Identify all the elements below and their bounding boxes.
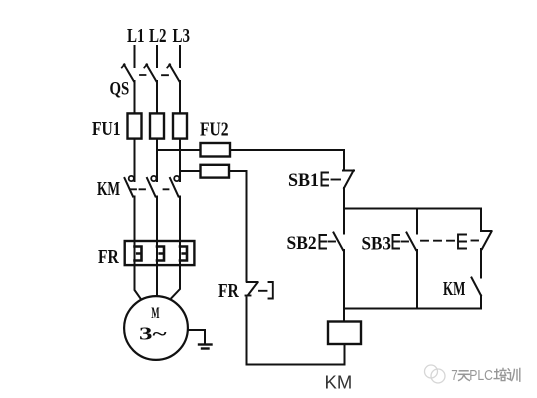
button SB2 actuator E bbox=[320, 235, 327, 249]
wire pole2 KM to FR bbox=[156, 197, 158, 242]
label L1 bbox=[127, 24, 144, 47]
wire SB1 to junction bbox=[343, 188, 345, 209]
svg-text:FU2: FU2 bbox=[200, 118, 229, 140]
wire SB3 NC to KM aux bbox=[480, 249, 482, 278]
contactor KM pole 3 circle bbox=[174, 176, 179, 181]
label SB3 bbox=[362, 233, 391, 254]
svg-text:KM: KM bbox=[325, 372, 353, 393]
FR phase 2 line through box bbox=[156, 241, 158, 265]
contact FR NC foot bbox=[246, 295, 251, 297]
wire KM aux to bottom rail bbox=[480, 296, 482, 309]
svg-text:PLC: PLC bbox=[469, 367, 493, 383]
watermark logo circle 2 bbox=[431, 369, 445, 383]
svg-text:FR: FR bbox=[98, 245, 120, 267]
label QS bbox=[110, 78, 130, 99]
FR phase 1 line through box bbox=[134, 241, 136, 265]
button SB3 NC bar bbox=[481, 230, 492, 232]
wire FR to motor phase 3 bbox=[172, 265, 181, 298]
wire FR to motor phase 2 bbox=[156, 265, 158, 296]
contactor KM pole 1 blade bbox=[125, 178, 134, 197]
ground bar 1 bbox=[199, 343, 212, 345]
coil KM rectangle bbox=[328, 322, 361, 345]
contact FR NC bar bbox=[247, 281, 258, 283]
wire FR to motor phase 1 bbox=[135, 265, 141, 299]
contact FR trip hook dash bbox=[259, 290, 267, 292]
wire junction to SB3 bbox=[416, 209, 418, 234]
watermark glyph tian bbox=[458, 371, 469, 381]
contactor KM linkage dashed bbox=[131, 188, 169, 190]
wire L1 drop bbox=[134, 46, 136, 67]
label KM main contacts bbox=[97, 177, 120, 199]
svg-text:FU1: FU1 bbox=[92, 117, 121, 139]
wire pole2 to FU1 bbox=[156, 81, 158, 113]
contactor KM pole 1 circle bbox=[129, 176, 134, 181]
contact FR NC blade bbox=[248, 283, 258, 296]
wire fuse2 to KM contact bbox=[156, 139, 158, 181]
svg-text:M: M bbox=[151, 303, 159, 322]
ground bar 2 bbox=[202, 347, 209, 349]
wire junction to SB3 NC bbox=[480, 209, 482, 232]
label L3 bbox=[173, 24, 191, 47]
contact FR trip hook bracket bbox=[269, 282, 273, 299]
label SB1 bbox=[288, 170, 319, 192]
wire SB3 down to bottom rail bbox=[416, 250, 418, 309]
SB3 second actuator dash bbox=[472, 240, 479, 242]
wire coil bottom bbox=[344, 344, 346, 365]
switch QS pole 3 blade bbox=[170, 65, 180, 82]
svg-text:QS: QS bbox=[110, 78, 130, 99]
wire pole3 KM to FR bbox=[179, 197, 181, 242]
wire bottom rail of branches bbox=[344, 308, 481, 310]
watermark text PLC bbox=[469, 367, 493, 383]
button SB1 actuator E bbox=[322, 173, 329, 186]
svg-text:SB2: SB2 bbox=[287, 232, 317, 253]
wire pole1 KM to FR bbox=[134, 197, 136, 242]
switch QS pole 2 blade bbox=[147, 65, 157, 82]
wire pole1 to FU1 bbox=[134, 81, 136, 113]
button SB1 NC bar bbox=[343, 170, 354, 172]
wire fuse3 to KM contact bbox=[179, 139, 181, 181]
label FU1 bbox=[92, 117, 121, 139]
switch QS linkage dashed bbox=[140, 74, 168, 76]
svg-text:KM: KM bbox=[97, 177, 120, 199]
FR phase 3 line through box bbox=[179, 241, 181, 265]
wire motor to ground bbox=[188, 330, 205, 344]
label FU2 bbox=[200, 118, 229, 140]
fuse FU2 lower bbox=[201, 165, 230, 178]
FR heater element 1 bbox=[135, 247, 142, 261]
FR heater element 2 bbox=[157, 247, 164, 261]
wire FU2 lower to control left bbox=[229, 170, 247, 172]
FR heater element 3 bbox=[180, 247, 187, 261]
wire L2 branch to FU2 upper bbox=[157, 149, 201, 151]
fuse FU1 element 1 bbox=[128, 113, 142, 138]
motor label M bbox=[151, 303, 159, 322]
wire junction horizontal top bbox=[344, 208, 481, 210]
button SB2 NO blade bbox=[334, 233, 344, 251]
watermark logo circle 1 bbox=[425, 365, 438, 378]
contact KM aux NO blade bbox=[472, 278, 482, 296]
wire control right branch down to SB1 bbox=[343, 150, 345, 170]
svg-text:3~: 3~ bbox=[139, 324, 167, 344]
button SB3 NO blade bbox=[407, 233, 417, 251]
wire fuse1 to KM contact bbox=[134, 139, 136, 181]
wire L3 branch to FU2 lower bbox=[180, 170, 201, 172]
wire L2 drop bbox=[156, 46, 158, 67]
svg-text:L2: L2 bbox=[149, 24, 167, 47]
switch QS pole 1 blade bbox=[124, 65, 134, 82]
label KM aux contact bbox=[443, 277, 465, 300]
contactor KM pole 2 blade bbox=[147, 178, 156, 197]
fuse FU1 element 2 bbox=[150, 113, 164, 138]
fuse FU2 upper bbox=[201, 143, 231, 157]
wire FU2 upper to control right bbox=[230, 149, 344, 151]
wire left control column up bbox=[246, 298, 248, 365]
contactor KM pole 2 circle bbox=[151, 176, 156, 181]
svg-text:7: 7 bbox=[451, 367, 457, 384]
svg-text:FR: FR bbox=[218, 279, 240, 301]
button SB1 actuator dash bbox=[332, 179, 341, 181]
watermark text 7 bbox=[451, 367, 457, 384]
switch QS pole 1 blade tick bbox=[122, 64, 125, 67]
wire L3 drop bbox=[179, 46, 181, 67]
watermark glyph pei bbox=[494, 368, 506, 380]
label FR control contact bbox=[218, 279, 240, 301]
button SB3 NC blade bbox=[482, 232, 492, 250]
switch QS pole 2 blade tick bbox=[144, 64, 147, 67]
label FR overload relay bbox=[98, 245, 120, 267]
wire bottom return bbox=[247, 364, 345, 366]
wire FR contact up to FU2 lower bbox=[246, 171, 248, 282]
label SB2 bbox=[287, 232, 317, 253]
button SB3 actuator dash bbox=[402, 241, 409, 243]
wire junction to SB2 bbox=[343, 209, 345, 234]
svg-text:SB1: SB1 bbox=[288, 170, 319, 192]
wire SB2 down to coil bbox=[343, 250, 345, 322]
motor label 3~ bbox=[139, 324, 167, 344]
svg-text:L3: L3 bbox=[173, 24, 191, 47]
button SB1 NC blade bbox=[344, 171, 354, 189]
label L2 bbox=[149, 24, 167, 47]
thermal relay FR box bbox=[125, 241, 195, 265]
svg-text:L1: L1 bbox=[127, 24, 144, 47]
watermark glyph xun bbox=[507, 368, 520, 381]
contactor KM pole 3 blade bbox=[170, 178, 179, 197]
button SB2 actuator dash bbox=[329, 241, 336, 243]
button SB3 actuator E bbox=[393, 235, 400, 249]
SB3 second actuator E bbox=[458, 235, 466, 249]
svg-text:SB3: SB3 bbox=[362, 233, 391, 254]
SB3 mechanical link dashed bbox=[421, 240, 455, 242]
switch QS pole 3 blade tick bbox=[167, 64, 170, 67]
fuse FU1 element 3 bbox=[173, 113, 187, 138]
motor M circle bbox=[124, 296, 188, 360]
svg-text:KM: KM bbox=[443, 277, 465, 300]
wire pole3 to FU1 bbox=[179, 81, 181, 113]
